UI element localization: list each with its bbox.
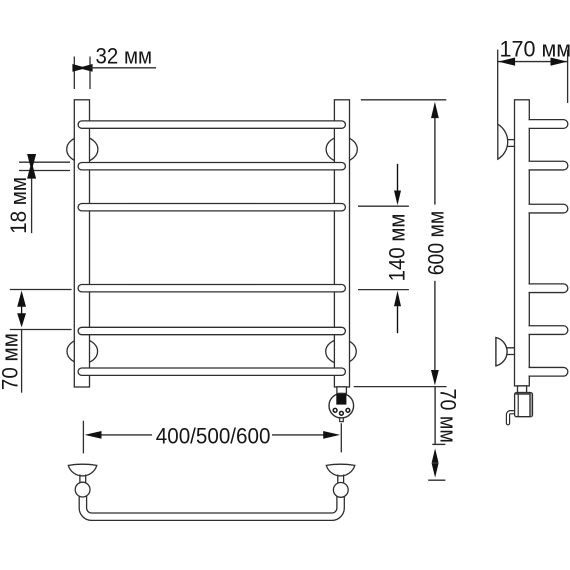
left rail [74, 100, 89, 387]
side bar 6 [529, 367, 568, 376]
side lower bracket stem [507, 348, 515, 355]
dim 18mm bowtie arrow [27, 154, 36, 179]
dim 18mm leader line [31, 179, 33, 234]
dim 70mm right diamond arrow [432, 448, 439, 477]
heater terminal circle [329, 393, 354, 418]
side bar 1 [529, 120, 568, 129]
dim 70mm left arrow shaft [21, 305, 23, 315]
side view rail [515, 100, 530, 386]
dim 600mm top extension line [361, 99, 447, 101]
dim 400/500/600 left arrow [85, 431, 102, 439]
side bar 3 [529, 204, 568, 213]
heater pin left [333, 408, 337, 412]
dim 32mm line [90, 67, 156, 69]
dim 32mm extension lines [74, 57, 90, 90]
dim 32mm bowtie arrow [72, 64, 92, 72]
svg-text:600 мм: 600 мм [423, 211, 448, 276]
upper left wall bracket [67, 137, 98, 162]
dim 600mm line lower [434, 281, 436, 372]
dim 70mm right tick top [432, 443, 445, 445]
side upper bracket stem [507, 140, 514, 147]
dim 170mm extension lines [498, 50, 568, 124]
bar 6 [82, 367, 342, 376]
dim 400/500/600 line [100, 434, 326, 436]
svg-text:32 мм: 32 мм [96, 44, 153, 69]
svg-text:170 мм: 170 мм [500, 36, 570, 61]
dim 400/500/600 left extension line [82, 421, 84, 454]
dim 70mm right tick bottom [428, 479, 445, 481]
bottom detail right ball [333, 483, 348, 498]
svg-text:18 мм: 18 мм [6, 177, 31, 234]
dim 70mm left arrows [17, 291, 26, 328]
dim 600mm bottom extension line [354, 386, 447, 388]
dim 140mm top arrow [394, 164, 401, 205]
bottom detail left ball [75, 482, 90, 497]
heater pin right [346, 408, 350, 412]
bar 1 [82, 120, 342, 129]
heater bottom stub [340, 418, 344, 422]
bottom detail left stem [80, 475, 86, 484]
side upper bracket dome [498, 124, 508, 159]
dim 400/500/600 right arrow [323, 431, 340, 439]
bar 2 [82, 162, 342, 171]
dim 170mm line [498, 61, 568, 63]
lower left wall bracket [67, 339, 98, 363]
svg-text:70 мм: 70 мм [436, 389, 461, 443]
bottom detail right stem [338, 475, 344, 484]
heater neck front [337, 387, 347, 394]
side bar 4 [529, 284, 568, 293]
bottom detail pipe [83, 496, 341, 517]
dim 70mm left extension lines [10, 290, 72, 330]
upper right wall bracket [326, 137, 357, 162]
heater black block [336, 394, 346, 405]
side heater neck [518, 386, 527, 393]
right rail [334, 100, 349, 387]
dim 18mm extension lines [19, 162, 70, 170]
bar 4 [82, 284, 342, 293]
bar 3 [82, 203, 342, 212]
dim 140mm bottom arrow [394, 291, 401, 333]
dim 140mm extension lines [358, 206, 409, 289]
svg-text:400/500/600: 400/500/600 [156, 423, 271, 448]
dim 170mm left arrow [498, 58, 515, 66]
bottom detail left dome [68, 464, 97, 476]
side heater body [515, 393, 533, 417]
side lower bracket dome [496, 338, 507, 366]
side heater cable [508, 412, 515, 423]
dim 400/500/600 right extension line [340, 423, 342, 452]
dim 600mm bottom arrow [431, 370, 439, 385]
svg-text:70 мм: 70 мм [0, 333, 23, 390]
dim 600mm line upper [434, 116, 436, 205]
svg-text:140 мм: 140 мм [384, 214, 409, 282]
dim 70mm left leader line [21, 330, 23, 393]
side bar 2 [529, 161, 568, 170]
dim 70mm right leader line [434, 387, 436, 445]
bottom detail right dome [326, 464, 355, 476]
dim 170mm right arrow [551, 58, 568, 66]
bar 5 [82, 327, 342, 336]
heater pin middle [340, 411, 344, 415]
lower right wall bracket [326, 339, 357, 363]
dim 600mm top arrow [431, 102, 439, 118]
side bar 5 [529, 326, 568, 335]
